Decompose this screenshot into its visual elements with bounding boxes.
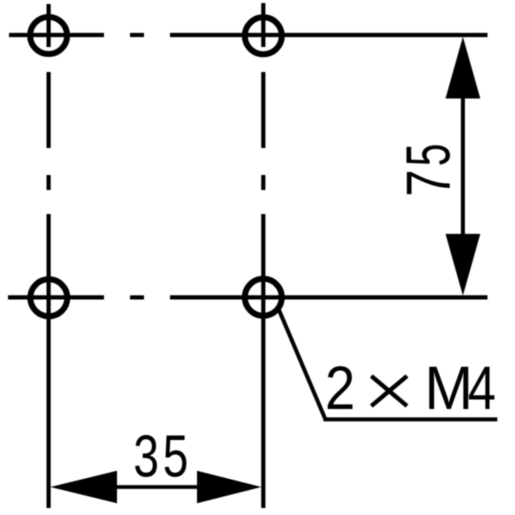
dimension 35: right arrowhead: [197, 471, 261, 503]
leader line to thread callout: horizontal underline segment: [324, 417, 498, 421]
hole bottom-right: [245, 279, 282, 316]
hole top-left: [30, 17, 67, 54]
centerline bottom horizontal: dot: [130, 295, 144, 299]
centerline right vertical: dash through top hole: [261, 3, 265, 47]
centerline right vertical: dash: [261, 72, 265, 148]
dimension 75: vertical dimension line shaft: [461, 98, 465, 234]
svg-text:M: M: [425, 354, 474, 423]
thread callout label: multiplication cross stroke 1: [371, 376, 407, 406]
centerline left vertical: dash through top hole: [46, 4, 50, 47]
dimension 35: left arrowhead: [50, 471, 117, 503]
centerline left vertical: dot: [46, 175, 50, 190]
dimension 75: upper arrowhead: [446, 37, 481, 99]
thread callout label: multiplication cross stroke 2: [371, 376, 407, 406]
hole bottom-left: [30, 279, 67, 316]
centerline bottom horizontal: dash through left hole: [8, 295, 104, 299]
svg-text:35: 35: [133, 424, 192, 490]
centerline right vertical: dot: [261, 175, 265, 190]
centerline right vertical: long dash through bottom hole extending to bottom dimension: [261, 214, 265, 508]
centerline top horizontal: dash through left hole: [9, 33, 104, 37]
svg-text:4: 4: [468, 354, 496, 423]
centerline top horizontal: dot: [130, 33, 144, 37]
centerline bottom horizontal: long dash through right hole extending to dimension extension: [170, 295, 488, 299]
centerline left vertical: long dash through bottom hole extending to bottom dimension: [46, 214, 50, 508]
centerline left vertical: dash: [46, 72, 50, 148]
hole top-right: [245, 17, 282, 54]
svg-text:5: 5: [394, 144, 464, 167]
svg-text:2: 2: [325, 355, 355, 423]
dimension 75: lower arrowhead: [446, 234, 481, 296]
centerline top horizontal: long dash through right hole extending to dimension extension: [170, 33, 488, 37]
svg-text:7: 7: [394, 170, 463, 197]
leader line to thread callout: diagonal segment: [278, 308, 325, 420]
dimension 35: horizontal dimension line shaft: [115, 485, 198, 489]
